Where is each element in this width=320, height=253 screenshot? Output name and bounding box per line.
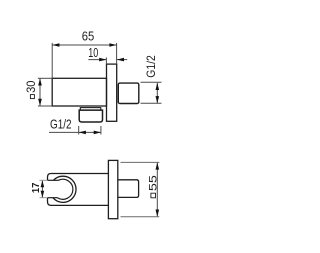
dim G1/2 bottom extensions xyxy=(78,126,80,135)
dim sq30 line xyxy=(39,78,41,106)
dim 65 left extension xyxy=(51,43,53,78)
holder block (side view) xyxy=(118,180,139,198)
svg-text:65: 65 xyxy=(82,29,95,43)
dim G1/2 bottom arrows xyxy=(79,131,86,135)
dim 65 line xyxy=(52,44,116,46)
dim G1/2 bottom leader xyxy=(49,131,101,133)
dim sq30 arrows xyxy=(38,78,42,85)
holder slot bottom wall xyxy=(48,197,58,199)
dim 65 right extension xyxy=(116,43,118,64)
dim sq30 bottom extension xyxy=(38,105,52,107)
dim 17 arrows xyxy=(41,180,45,187)
holder body outline (top view) xyxy=(48,174,109,206)
dim sq30 top extension xyxy=(38,77,52,79)
svg-text:30: 30 xyxy=(25,80,38,93)
holder slot top wall xyxy=(48,179,59,181)
svg-text:17: 17 xyxy=(31,182,42,193)
dim 10 line xyxy=(88,59,106,61)
svg-text:10: 10 xyxy=(88,46,98,60)
dim G1/2 right extensions xyxy=(141,81,162,83)
dim 10 arrows xyxy=(99,58,106,62)
dim 65 arrows xyxy=(52,43,59,47)
dim 17 extensions xyxy=(40,179,47,181)
elbow body square xyxy=(52,78,106,106)
outlet union nut xyxy=(79,110,102,122)
svg-text:G1/2: G1/2 xyxy=(144,55,158,78)
dim sq55 arrows xyxy=(156,162,160,169)
dim 10 right tail xyxy=(117,59,127,61)
holder C-ring outer arc xyxy=(53,176,76,202)
holder wall plate (side view) xyxy=(108,160,117,218)
outlet washer band xyxy=(80,108,101,111)
dim G1/2 right line xyxy=(156,83,158,104)
threaded nipple G1/2 xyxy=(118,83,139,103)
svg-text:55: 55 xyxy=(147,175,159,191)
wall flange plate xyxy=(107,64,117,121)
dim 17 line xyxy=(41,180,43,197)
dim sq55 extensions xyxy=(121,161,160,163)
dim G1/2 right arrows xyxy=(156,83,160,90)
dim sq55 line xyxy=(156,162,158,216)
svg-text:G1/2: G1/2 xyxy=(50,117,72,131)
holder C-ring inner arc xyxy=(58,179,73,199)
dim 10 flange extension xyxy=(105,57,107,64)
